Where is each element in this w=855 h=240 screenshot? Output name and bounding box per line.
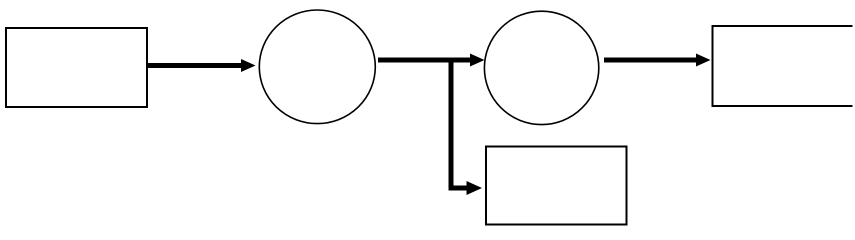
right process box (right edge clipped) <box>713 26 853 106</box>
circle node 1 <box>259 10 375 124</box>
circle node 2 <box>484 11 598 124</box>
left process box <box>6 28 147 107</box>
bottom process box <box>486 147 627 225</box>
wire arrow from left box to circle 1 <box>148 59 256 72</box>
wire arrow from circle 1 to circle 2 <box>378 54 485 67</box>
branch wire down-right to bottom box <box>451 58 482 195</box>
wire arrow from circle 2 to right box <box>604 54 711 67</box>
